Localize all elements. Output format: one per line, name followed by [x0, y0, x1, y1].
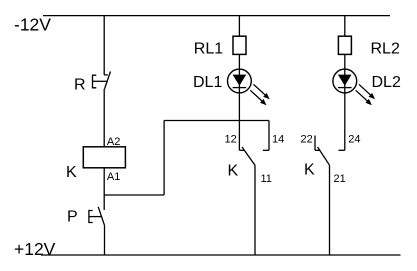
- svg-text:-12V: -12V: [14, 14, 51, 34]
- svg-text:K: K: [66, 164, 77, 181]
- svg-text:11: 11: [261, 173, 272, 185]
- svg-text:22: 22: [301, 134, 313, 146]
- svg-text:P: P: [67, 209, 78, 226]
- svg-text:DL1: DL1: [193, 74, 222, 91]
- svg-text:14: 14: [272, 134, 284, 146]
- svg-text:A2: A2: [107, 136, 120, 148]
- svg-text:+12V: +12V: [14, 239, 56, 259]
- svg-text:21: 21: [334, 173, 346, 185]
- svg-text:DL2: DL2: [372, 74, 401, 91]
- svg-text:12: 12: [225, 134, 237, 146]
- svg-text:R: R: [74, 77, 86, 94]
- svg-text:K: K: [304, 162, 315, 179]
- svg-text:RL2: RL2: [371, 41, 400, 58]
- svg-text:24: 24: [348, 134, 360, 146]
- svg-text:RL1: RL1: [194, 41, 223, 58]
- svg-text:A1: A1: [107, 171, 120, 183]
- svg-text:K: K: [228, 163, 239, 180]
